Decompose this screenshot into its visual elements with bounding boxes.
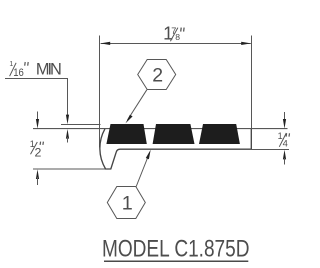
hexagon callout 1 — [107, 187, 145, 219]
extension line left of 1 7/8 dimension — [99, 36, 101, 148]
svg-text:8: 8 — [175, 32, 180, 42]
hexagon callout 2 — [138, 60, 176, 90]
abrasive insert 1 — [106, 124, 146, 144]
leader from 1/16 MIN label — [5, 79, 68, 116]
svg-text:2: 2 — [152, 65, 163, 87]
svg-text:MODEL C1.875D: MODEL C1.875D — [102, 236, 250, 262]
nose bottom extension line for 1/2 dimension — [33, 168, 106, 170]
arrowhead up of 1/16 dimension with stub — [66, 129, 69, 139]
arrowhead left of 1 7/8 dimension — [100, 42, 110, 45]
plate top surface line / lower line of 1/16 gap / 1/4 top extension — [33, 128, 288, 130]
1/2 dimension bottom arrow (up) with stub — [36, 169, 39, 179]
svg-text:16: 16 — [13, 67, 24, 79]
abrasive insert 3 — [199, 124, 240, 144]
arrowhead of hexagon 1 leader — [146, 150, 151, 160]
svg-text:MIN: MIN — [36, 61, 62, 79]
1/4 dimension top arrow (down) with stub — [284, 112, 286, 121]
svg-text:4: 4 — [283, 138, 288, 148]
svg-text:2: 2 — [35, 145, 42, 159]
plate bottom extension line for 1/4 dimension — [251, 149, 289, 151]
svg-text:1: 1 — [122, 192, 133, 214]
dimension text 1 7/8 inch — [163, 24, 184, 44]
title underline — [104, 260, 248, 262]
leader from hexagon 2 to insert top — [128, 90, 147, 120]
1/4 dimension bottom arrow (up) with stub — [283, 150, 286, 160]
extension line right of 1 7/8 dimension — [251, 36, 253, 129]
insert-top reference line (upper line of 1/16 gap) — [61, 124, 101, 126]
label 1/16 MIN — [9, 61, 62, 79]
leader from hexagon 1 to plate — [136, 154, 149, 187]
arrowhead of hexagon 2 leader — [126, 115, 133, 124]
arrowhead right of 1 7/8 dimension — [241, 42, 251, 45]
label 1/4 — [278, 131, 290, 149]
label 1/2 — [30, 139, 44, 160]
1/2 dimension top arrow (down) with stub — [37, 112, 39, 122]
arrowhead down of 1/16 dimension — [66, 115, 69, 125]
abrasive insert 2 — [153, 124, 195, 144]
profile outline: nose arc, bottom tip, inner recess, plate bottom, right edge — [100, 129, 251, 169]
dimension line 1 7/8 — [101, 43, 251, 45]
